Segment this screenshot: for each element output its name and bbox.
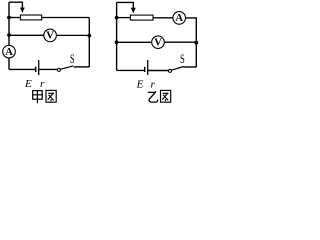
node: junction dot left vertical / resistor lead (115, 16, 119, 20)
wire: bottom wire from left corner to battery (117, 69, 145, 71)
rheostat R1 resistor box (21, 15, 42, 20)
svg-text:A: A (175, 13, 183, 24)
wire: left vertical lower segment (ammeter to bottom corner) (8, 58, 10, 69)
caption 图 (hand-drawn glyph) (161, 90, 171, 102)
wire: top wire to slider stem (117, 2, 134, 8)
wire: voltmeter branch left segment (117, 41, 152, 43)
wire: ammeter to top-right corner and right vertical down (186, 18, 197, 67)
svg-text:V: V (154, 38, 162, 49)
node: junction dot left vertical / voltmeter branch (7, 33, 11, 37)
battery: long plate (positive) (38, 60, 40, 75)
switch S2 lever (open) (171, 67, 183, 71)
caption 乙 (hand-drawn glyph) (148, 91, 158, 102)
switch S1 pivot circle (57, 68, 60, 71)
svg-text:S: S (70, 52, 75, 66)
rheostat R1 slider arrowhead (20, 8, 25, 13)
ammeter A2 (173, 12, 186, 25)
svg-text:E: E (24, 78, 32, 90)
rheostat R2 resistor box (130, 15, 153, 20)
rheostat R2 slider arrowhead (131, 8, 136, 13)
caption 甲 (hand-drawn glyph) (33, 91, 43, 104)
node: junction dot left vertical / resistor lead (7, 16, 11, 20)
wire: voltmeter branch right segment (57, 34, 90, 36)
voltmeter V2 (152, 36, 165, 49)
battery: short plate (negative) (35, 67, 37, 72)
wire: resistor right lead across to right vertical (42, 17, 90, 19)
node: junction dot right vertical / voltmeter branch (194, 41, 198, 45)
svg-text:r: r (150, 79, 155, 91)
node: junction dot right vertical / voltmeter branch (87, 34, 91, 38)
wire: left vertical of right circuit (full) (116, 2, 118, 70)
wire: voltmeter branch left segment (9, 34, 44, 36)
svg-text:A: A (5, 47, 13, 58)
svg-text:E: E (136, 79, 144, 91)
voltmeter V1 (44, 29, 57, 42)
battery: long plate (positive) (147, 60, 149, 75)
svg-text:S: S (180, 52, 185, 66)
wire: right vertical of left circuit (88, 18, 90, 67)
switch S2 pivot circle (169, 69, 172, 72)
wire: left vertical upper segment (top corner down to ammeter) (8, 2, 10, 45)
wire: resistor left lead to left vertical (9, 17, 21, 19)
node: junction dot left vertical / voltmeter branch (115, 40, 119, 44)
switch S1 lever (open) (60, 66, 73, 69)
wire: switch fixed contact lead to right vertical (74, 66, 90, 68)
wire: top wire from left vertical to rheostat slider stem (9, 2, 22, 9)
wire: battery to switch pivot (148, 70, 168, 72)
wire: voltmeter branch right segment (165, 41, 197, 43)
wire: battery to switch pivot (39, 68, 57, 70)
caption 图 (hand-drawn glyph) (46, 90, 56, 102)
svg-text:V: V (46, 31, 54, 42)
wire: resistor left lead (117, 17, 131, 19)
battery: short plate (negative) (144, 67, 146, 72)
wire: resistor right lead to ammeter (153, 17, 173, 19)
wire: switch fixed contact lead to right vertical (184, 66, 197, 68)
ammeter A1 (3, 45, 16, 58)
wire: bottom wire from corner to battery (9, 68, 35, 70)
svg-text:r: r (40, 78, 45, 90)
